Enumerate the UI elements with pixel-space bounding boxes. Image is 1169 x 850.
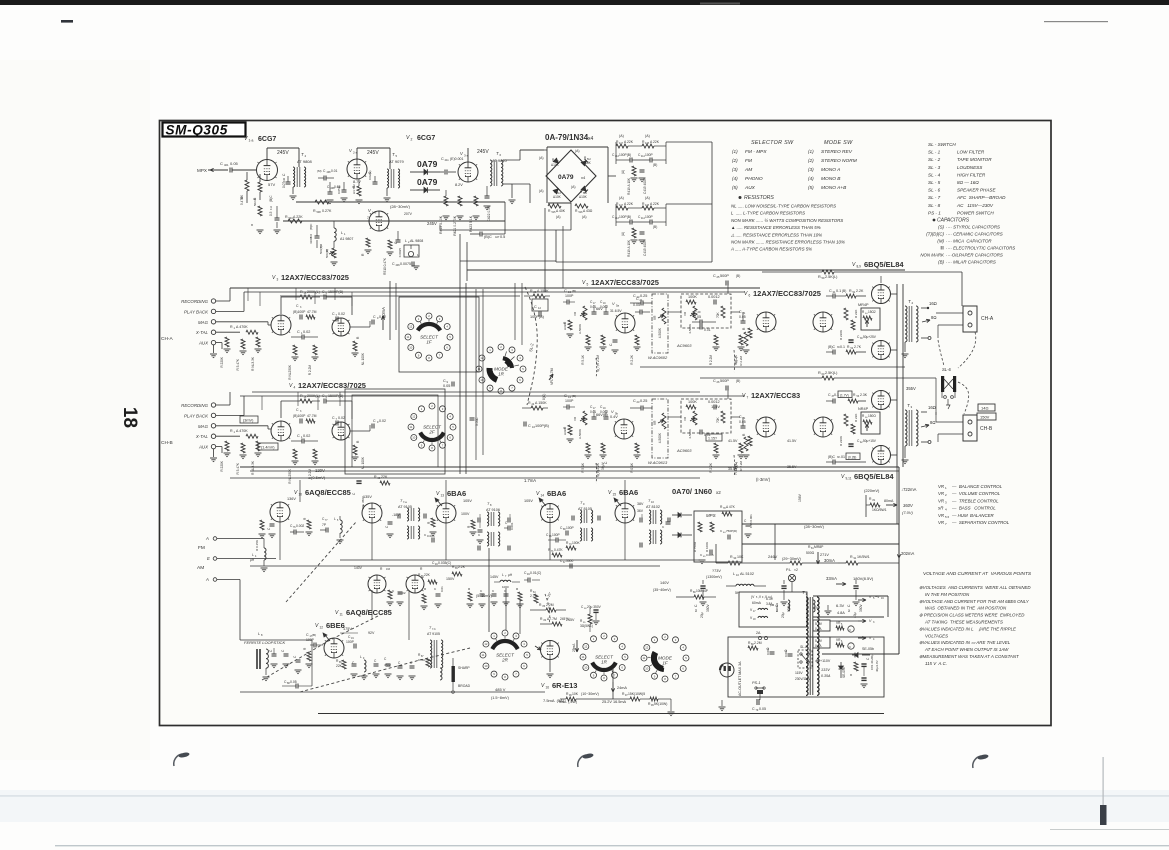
output tube V11 bbox=[872, 446, 891, 465]
svg-text:(B): (B) bbox=[842, 289, 846, 293]
svg-text:NON MARK ...... ½ WATTS COMPOS: NON MARK ...... ½ WATTS COMPOSITION RESI… bbox=[731, 218, 843, 223]
svg-text:⊛VALUES INDICATED IN L ⌋ARE: ⊛VALUES INDICATED IN L ⌋ARE THE RIPPLE bbox=[919, 626, 1016, 631]
svg-text:R 0.1K: R 0.1K bbox=[630, 462, 634, 473]
svg-text:(B): (B) bbox=[653, 163, 657, 167]
tube V15 6BA6 IF3 bbox=[615, 503, 635, 523]
dashed network box bass a bbox=[681, 294, 731, 328]
svg-text:R 22K: R 22K bbox=[854, 414, 858, 422]
svg-text:100P: 100P bbox=[552, 533, 561, 537]
svg-text:⊕ PRECISION CLASS METERS WERE: ⊕ PRECISION CLASS METERS WERE EMPLOYED bbox=[919, 613, 1025, 618]
svg-text:30mA: 30mA bbox=[824, 558, 835, 563]
svg-text:R 2.2K: R 2.2K bbox=[709, 462, 713, 473]
svg-text:MPS: MPS bbox=[706, 513, 716, 518]
svg-text:R 2.2M: R 2.2M bbox=[308, 365, 312, 376]
svg-text:R421 0.270K: R421 0.270K bbox=[453, 215, 457, 236]
svg-text:11: 11 bbox=[340, 613, 344, 617]
rotary switch SELECT 1R bbox=[591, 636, 597, 642]
svg-text:HIGH FILTER: HIGH FILTER bbox=[957, 172, 986, 177]
svg-text:100P: 100P bbox=[645, 153, 654, 157]
scan thin line top-right bbox=[1044, 21, 1108, 22]
svg-text:A1 9807: A1 9807 bbox=[340, 237, 353, 241]
svg-text:(28~30mV): (28~30mV) bbox=[804, 524, 825, 529]
svg-text:R 5.47K: R 5.47K bbox=[236, 462, 240, 474]
label 6R-E13 arrow bbox=[535, 646, 541, 650]
svg-text:(A): (A) bbox=[619, 134, 624, 138]
svg-text:4: 4 bbox=[294, 386, 296, 390]
tuner mid row tube V11-a bbox=[368, 575, 386, 593]
svg-text:△ ..... RESISTANCE ERRORLESS T: △ ..... RESISTANCE ERRORLESS THAN 10% bbox=[730, 232, 822, 237]
wire mode drop lines bbox=[459, 281, 461, 474]
svg-text:(28~30mV): (28~30mV) bbox=[390, 204, 411, 209]
wire plate loop CH-A bbox=[280, 297, 282, 314]
resistor R9 NL250K CH-B bbox=[293, 449, 297, 459]
tuner mid row tube V11-b bbox=[406, 575, 424, 593]
svg-text:R 5.1K: R 5.1K bbox=[581, 462, 585, 473]
svg-text:R510 0.47K: R510 0.47K bbox=[383, 257, 387, 275]
svg-text:412: 412 bbox=[270, 205, 273, 210]
svg-text:NR4P: NR4P bbox=[858, 407, 869, 411]
svg-text:0.05: 0.05 bbox=[475, 419, 479, 426]
svg-text:AT 8102: AT 8102 bbox=[646, 505, 660, 509]
svg-text:(A): (A) bbox=[539, 156, 544, 160]
svg-text:6CG7: 6CG7 bbox=[417, 135, 435, 142]
svg-text:SL - 4: SL - 4 bbox=[928, 172, 941, 177]
svg-text:7: 7 bbox=[747, 396, 749, 400]
svg-text:0.05: 0.05 bbox=[337, 188, 341, 194]
punch hole mark middle bbox=[578, 755, 586, 767]
svg-text:750P(D): 750P(D) bbox=[726, 529, 737, 533]
svg-text:(1.4mV): (1.4mV) bbox=[261, 446, 275, 450]
svg-text:(4): (4) bbox=[732, 176, 738, 181]
svg-text:0.07: 0.07 bbox=[282, 182, 286, 188]
svg-text:(A): (A) bbox=[621, 170, 625, 174]
svg-text:15Ω2: 15Ω2 bbox=[868, 310, 876, 314]
svg-text:6BQ5/EL84: 6BQ5/EL84 bbox=[864, 260, 904, 269]
svg-text:0.05: 0.05 bbox=[694, 315, 701, 319]
svg-text:8Ω: 8Ω bbox=[931, 315, 936, 320]
svg-text:PLAY BACK: PLAY BACK bbox=[184, 309, 209, 314]
svg-text:NON MARK ....... RESISTANCE ER: NON MARK ....... RESISTANCE ERRORLESS TH… bbox=[731, 240, 845, 245]
svg-text:100P(B): 100P(B) bbox=[619, 153, 631, 157]
svg-text:7: 7 bbox=[367, 216, 369, 220]
svg-text:C: C bbox=[534, 305, 537, 309]
svg-text:0.05: 0.05 bbox=[230, 161, 239, 166]
svg-text:0.01: 0.01 bbox=[440, 586, 444, 592]
svg-text:12AX7/ECC83/7025: 12AX7/ECC83/7025 bbox=[753, 289, 821, 298]
svg-text:(1.7V): (1.7V) bbox=[840, 394, 849, 398]
svg-text:(1300mV): (1300mV) bbox=[706, 575, 722, 579]
ratio detector caps bbox=[666, 521, 671, 523]
svg-text:100V: 100V bbox=[461, 512, 470, 516]
junction wires CH-B bbox=[267, 426, 269, 429]
svg-text:271V: 271V bbox=[820, 553, 829, 557]
rotary switch SELECT 1F bbox=[416, 316, 422, 322]
svg-text:0.5: 0.5 bbox=[500, 235, 505, 239]
resistor R46 220K vertical bbox=[844, 414, 848, 426]
svg-text:MONO A+B: MONO A+B bbox=[821, 185, 847, 191]
svg-text:0.05: 0.05 bbox=[739, 420, 746, 424]
svg-text:13: 13 bbox=[441, 494, 445, 498]
svg-text:1.15?: 1.15? bbox=[708, 437, 717, 441]
svg-text:Δ10K: Δ10K bbox=[579, 195, 588, 199]
electrolytic C61 20u 350V bbox=[781, 585, 786, 587]
wire network frame bbox=[615, 142, 617, 164]
dashed SL-4 b bbox=[733, 455, 736, 477]
svg-text:(3): (3) bbox=[808, 167, 814, 172]
svg-text:IN THE FM POSITION: IN THE FM POSITION bbox=[925, 592, 970, 597]
svg-text:SL - 3: SL - 3 bbox=[928, 165, 941, 170]
svg-text:100P(B): 100P(B) bbox=[530, 315, 545, 319]
svg-text:?73V: ?73V bbox=[712, 569, 721, 573]
resistor R37 2.2M b bbox=[744, 437, 748, 451]
svg-text:A-500K: A-500K bbox=[578, 429, 582, 439]
svg-text:R 220K: R 220K bbox=[220, 356, 224, 368]
svg-text:C: C bbox=[373, 419, 376, 423]
svg-text:(B): (B) bbox=[938, 260, 944, 265]
svg-text:C: C bbox=[528, 424, 531, 428]
ground input CH-B bbox=[213, 449, 215, 457]
svg-text:8.7V: 8.7V bbox=[353, 180, 361, 184]
svg-text:⊛VOLTAGES AND CURRENTS WERE: ⊛VOLTAGES AND CURRENTS WERE ALL OBTAINED bbox=[919, 585, 1031, 590]
svg-text:150V: 150V bbox=[980, 415, 990, 420]
svg-text:R 0.15K: R 0.15K bbox=[255, 540, 259, 551]
svg-text:E: E bbox=[207, 556, 210, 561]
diode bridge arm 1 bbox=[553, 158, 560, 165]
svg-text:R 220K: R 220K bbox=[220, 460, 224, 472]
svg-text:11: 11 bbox=[643, 656, 646, 660]
svg-text:(I·3mV): (I·3mV) bbox=[756, 477, 771, 482]
svg-text:0.02(E): 0.02(E) bbox=[368, 170, 372, 180]
svg-text:MONO A: MONO A bbox=[821, 167, 840, 173]
svg-text:R 2.2K: R 2.2K bbox=[596, 462, 600, 473]
ground heater bbox=[827, 605, 829, 610]
svg-text:C: C bbox=[373, 315, 376, 319]
svg-text:50μ+15V: 50μ+15V bbox=[863, 439, 877, 443]
svg-text:+110V: +110V bbox=[820, 659, 831, 663]
svg-text:1R: 1R bbox=[601, 660, 608, 665]
mid row parts bbox=[388, 590, 392, 599]
svg-text:140V: 140V bbox=[354, 566, 363, 570]
svg-text:···· STYROL CAPACITORS: ···· STYROL CAPACITORS bbox=[946, 225, 1000, 230]
heater arrow V5-V16 bbox=[858, 599, 866, 601]
svg-text:150V: 150V bbox=[446, 577, 455, 581]
svg-text:R 750Ω: R 750Ω bbox=[693, 541, 697, 552]
svg-text:— HUM BALANCER: — HUM BALANCER bbox=[951, 513, 995, 518]
svg-text:A 22K: A 22K bbox=[624, 202, 634, 206]
wire psu internals bbox=[766, 585, 775, 587]
svg-text:···· MICA CAPACITOR: ···· MICA CAPACITOR bbox=[946, 239, 992, 244]
svg-text:12: 12 bbox=[320, 626, 324, 630]
svg-text:(A): (A) bbox=[556, 215, 561, 219]
svg-text:6: 6 bbox=[749, 294, 751, 298]
svg-text:1K/5W1: 1K/5W1 bbox=[857, 555, 870, 559]
svg-text:POWER SWITCH: POWER SWITCH bbox=[957, 210, 994, 215]
svg-text:R 2.2K: R 2.2K bbox=[630, 354, 634, 365]
svg-text:C415 400P: C415 400P bbox=[643, 178, 647, 194]
svg-text:105V: 105V bbox=[463, 499, 472, 503]
svg-text:230V/115V: 230V/115V bbox=[795, 677, 811, 681]
wire inputs CH-A bbox=[216, 300, 230, 302]
resistor R9 NL250K CH-A bbox=[293, 345, 297, 355]
svg-text:47.7M: 47.7M bbox=[307, 414, 317, 418]
svg-text:1R: 1R bbox=[498, 372, 505, 377]
wire tuner buses bbox=[240, 691, 545, 693]
oscillator coil L5 bbox=[340, 520, 342, 533]
svg-text:2.2M: 2.2M bbox=[754, 641, 762, 645]
rotary switch MODE 1F bbox=[652, 637, 658, 643]
svg-text:⊛VALUES INDICATED IN ▭ ARE THE: ⊛VALUES INDICATED IN ▭ ARE THE LEVEL bbox=[919, 640, 1011, 645]
wire out CH-B bbox=[350, 430, 370, 432]
svg-text:RESISTORS: RESISTORS bbox=[744, 195, 774, 201]
svg-text:A ..... A-TYPE CARBON RESISTOR: A ..... A-TYPE CARBON RESISTORS 5% bbox=[730, 247, 812, 252]
wire network frame bbox=[615, 204, 617, 226]
svg-text:AL 9808: AL 9808 bbox=[410, 239, 423, 243]
svg-text:(5~10mV): (5~10mV) bbox=[476, 594, 492, 598]
svg-text:2R: 2R bbox=[501, 658, 509, 663]
svg-text:SL - 2: SL - 2 bbox=[928, 157, 941, 162]
wire preamp buses bbox=[230, 287, 760, 289]
svg-text:MR8P: MR8P bbox=[814, 545, 824, 549]
svg-text:R 220K: R 220K bbox=[839, 330, 843, 340]
svg-text:80mA: 80mA bbox=[884, 499, 894, 503]
svg-text:(A): (A) bbox=[582, 215, 587, 219]
svg-text:245V: 245V bbox=[477, 149, 489, 155]
svg-text:(29~30mV): (29~30mV) bbox=[782, 557, 802, 561]
svg-text:C415 400P: C415 400P bbox=[643, 240, 647, 256]
svg-text:500P: 500P bbox=[720, 274, 729, 278]
svg-text:(B)C: (B)C bbox=[309, 223, 313, 230]
svg-text:10: 10 bbox=[584, 666, 588, 670]
svg-text:14Ω: 14Ω bbox=[981, 406, 988, 411]
svg-text:245V: 245V bbox=[427, 221, 437, 226]
svg-text:105V: 105V bbox=[524, 499, 533, 503]
tube V5-b bbox=[614, 419, 634, 439]
wire bridge enclosure box bbox=[547, 146, 608, 148]
svg-text:2A: 2A bbox=[756, 631, 761, 635]
resistor R13 NL100K CH-A bbox=[353, 341, 357, 351]
svg-text:Δ7.7M: Δ7.7M bbox=[547, 617, 557, 621]
svg-text:14: 14 bbox=[541, 494, 545, 498]
tube V1-a bbox=[257, 160, 278, 181]
tube V4 first half bbox=[271, 421, 291, 441]
svg-text:— VOLUME CONTROL: — VOLUME CONTROL bbox=[951, 491, 1001, 496]
svg-text:1-a: 1-a bbox=[249, 139, 254, 143]
svg-text:0A79: 0A79 bbox=[558, 174, 574, 181]
svg-text:0.002: 0.002 bbox=[296, 524, 304, 528]
svg-text:136V: 136V bbox=[287, 497, 296, 501]
wire bus upper 28-30mV bbox=[296, 201, 505, 203]
svg-text:AC-OUTLET MAX 3A: AC-OUTLET MAX 3A bbox=[738, 661, 742, 696]
svg-text:(B)C: (B)C bbox=[828, 455, 836, 459]
svg-text:66V(B): 66V(B) bbox=[596, 413, 609, 417]
svg-text:2.2K: 2.2K bbox=[856, 289, 864, 293]
svg-text:AUX: AUX bbox=[198, 341, 209, 346]
svg-text:Δ10K: Δ10K bbox=[551, 163, 560, 167]
diode bridge 0A79 x4 bbox=[546, 150, 596, 202]
svg-text:···· MILAR CAPACITORS: ···· MILAR CAPACITORS bbox=[946, 260, 996, 265]
diode bridge arm 2 bbox=[581, 159, 588, 166]
resistor R43 grid bbox=[739, 335, 743, 345]
svg-text:24mA: 24mA bbox=[617, 686, 627, 690]
svg-text:(1): (1) bbox=[732, 149, 738, 154]
svg-text:FERRITE LOOPSTICK: FERRITE LOOPSTICK bbox=[244, 640, 285, 645]
svg-text:FM: FM bbox=[198, 545, 205, 551]
capacitor pairs flanking T9 bbox=[571, 516, 573, 521]
ratio detector diodes 0A70 bbox=[672, 514, 678, 516]
svg-text:AT EACH POINT WHEN OUTPUT IS 1: AT EACH POINT WHEN OUTPUT IS 1AW bbox=[924, 647, 1009, 652]
svg-text:0.01(C): 0.01(C) bbox=[530, 571, 541, 575]
svg-text:VOLTAGES: VOLTAGES bbox=[925, 633, 948, 638]
svg-text:NL 100K: NL 100K bbox=[361, 352, 365, 365]
wire antenna leads bbox=[217, 538, 264, 540]
svg-text:10: 10 bbox=[409, 346, 413, 350]
svg-text:⊛VOLTAGE AND CURRENT FOR THE A: ⊛VOLTAGE AND CURRENT FOR THE AM 6BE6 ONL… bbox=[919, 599, 1030, 604]
svg-text:R 2.2M: R 2.2M bbox=[596, 355, 600, 366]
resistor R11 2.2M CH-B bbox=[313, 449, 317, 459]
resistor R3 networks CH-B bbox=[225, 441, 229, 451]
svg-text:6BE6: 6BE6 bbox=[326, 621, 345, 630]
svg-text:C81 40+80μ: C81 40+80μ bbox=[870, 654, 874, 670]
resistor R13 NL100K CH-B bbox=[353, 445, 357, 455]
svg-text:25mA: 25mA bbox=[572, 643, 576, 652]
svg-text:202mA: 202mA bbox=[901, 551, 914, 556]
svg-text:485 V: 485 V bbox=[495, 687, 506, 692]
wire upper amp B+ rails bbox=[467, 269, 905, 271]
svg-text:0.05: 0.05 bbox=[759, 707, 766, 711]
svg-text:0.02: 0.02 bbox=[379, 419, 386, 423]
svg-text:AT 9105: AT 9105 bbox=[398, 505, 412, 509]
svg-text:AUX: AUX bbox=[198, 445, 209, 450]
tube V5-a bbox=[615, 313, 635, 333]
svg-text:16: 16 bbox=[546, 686, 550, 690]
svg-text:NL ..... LOW NOISES/L-TYPE CAR: NL ..... LOW NOISES/L-TYPE CARBON RESIST… bbox=[731, 204, 836, 209]
ground psu bbox=[721, 700, 723, 706]
svg-text:8(C): 8(C) bbox=[542, 394, 546, 400]
svg-text:(T)(D)(C): (T)(D)(C) bbox=[926, 232, 944, 237]
tube V16 6R-E13 magic eye bbox=[541, 641, 560, 660]
svg-text:X-TAL: X-TAL bbox=[195, 330, 209, 335]
svg-text:245V: 245V bbox=[367, 150, 379, 156]
svg-text:V: V bbox=[406, 135, 410, 141]
resistor R48 22K vertical bbox=[851, 424, 855, 434]
svg-text:sR: sR bbox=[938, 506, 944, 511]
svg-text:100P: 100P bbox=[565, 399, 574, 403]
svg-text:2: 2 bbox=[411, 138, 413, 142]
svg-text:50mA: 50mA bbox=[253, 198, 257, 206]
svg-text:(B): (B) bbox=[653, 225, 657, 229]
svg-text:SE-05b: SE-05b bbox=[862, 647, 874, 651]
svg-text:0.5: 0.5 bbox=[269, 211, 273, 216]
svg-text:(B)100P: (B)100P bbox=[293, 310, 306, 314]
svg-text:R423 5.1K: R423 5.1K bbox=[469, 215, 473, 232]
svg-text:8Ω — 16Ω: 8Ω — 16Ω bbox=[957, 180, 979, 185]
svg-text:x2: x2 bbox=[716, 490, 721, 495]
svg-text:SL - 7: SL - 7 bbox=[928, 195, 941, 200]
svg-text:4-500K: 4-500K bbox=[658, 432, 662, 443]
svg-text:Δ10K: Δ10K bbox=[583, 161, 592, 165]
svg-text:SL - 5: SL - 5 bbox=[928, 180, 941, 185]
secondary 5.5V winding VR6 bbox=[813, 637, 830, 648]
svg-text:22K: 22K bbox=[381, 475, 388, 479]
svg-text:150Ω: 150Ω bbox=[868, 414, 876, 418]
svg-text:L: L bbox=[405, 239, 407, 243]
svg-text:12: 12 bbox=[409, 325, 413, 329]
svg-text:41.5V: 41.5V bbox=[787, 439, 797, 443]
svg-text:12: 12 bbox=[412, 415, 416, 419]
svg-text:0.05: 0.05 bbox=[633, 303, 640, 307]
svg-text:246V: 246V bbox=[768, 554, 778, 559]
svg-text:10: 10 bbox=[484, 664, 488, 668]
svg-text:VR: VR bbox=[938, 520, 945, 525]
svg-text:SL - SWITCH: SL - SWITCH bbox=[928, 142, 956, 147]
tube V7-a phase splitter lower bbox=[756, 417, 776, 437]
svg-text:A: A bbox=[205, 577, 209, 582]
svg-text:12: 12 bbox=[645, 646, 649, 650]
svg-text:SL - 8: SL - 8 bbox=[928, 203, 941, 208]
svg-text:(3mV): (3mV) bbox=[243, 419, 254, 423]
svg-text:3.8A: 3.8A bbox=[766, 602, 773, 606]
svg-text:VR: VR bbox=[938, 491, 945, 496]
svg-text:0.25: 0.25 bbox=[640, 294, 647, 298]
svg-text:500Ω: 500Ω bbox=[806, 551, 815, 555]
svg-text:MODE SW: MODE SW bbox=[824, 140, 853, 146]
svg-text:CH-B: CH-B bbox=[980, 426, 993, 432]
svg-text:(A): (A) bbox=[571, 185, 576, 189]
tube V2-a bbox=[347, 159, 367, 179]
svg-text:0.02: 0.02 bbox=[303, 434, 310, 438]
wire lower network return bbox=[556, 261, 712, 263]
svg-text:8.2V: 8.2V bbox=[455, 183, 463, 187]
svg-text:Δ 150K: Δ 150K bbox=[535, 401, 547, 405]
tube V3 first half bbox=[271, 315, 291, 335]
svg-text:(B): (B) bbox=[736, 274, 740, 278]
svg-text:(A): (A) bbox=[575, 149, 580, 153]
svg-text:(5): (5) bbox=[808, 185, 814, 190]
svg-text:403: 403 bbox=[283, 177, 286, 182]
svg-text:CH-A: CH-A bbox=[981, 316, 994, 322]
svg-text:10M64P: 10M64P bbox=[696, 589, 708, 593]
resistor R76 100K bbox=[710, 522, 714, 532]
punch hole mark right bbox=[973, 756, 981, 768]
svg-text:5.470K: 5.470K bbox=[240, 194, 244, 205]
svg-text:10: 10 bbox=[412, 436, 416, 440]
boxed label 3mV bbox=[240, 416, 258, 423]
svg-text:11: 11 bbox=[482, 653, 485, 657]
dashed FM gang link bbox=[286, 522, 356, 602]
svg-text:6BA6: 6BA6 bbox=[447, 489, 466, 498]
svg-text:MAG: MAG bbox=[198, 424, 209, 429]
svg-text:2.3K: 2.3K bbox=[860, 393, 868, 397]
svg-text:15: 15 bbox=[613, 493, 617, 497]
svg-text:6BA6: 6BA6 bbox=[619, 488, 638, 497]
svg-text:STEREO REV: STEREO REV bbox=[821, 149, 853, 155]
svg-text:SPEAKER PHASE: SPEAKER PHASE bbox=[957, 188, 996, 193]
svg-text:R NL3.3K: R NL3.3K bbox=[251, 460, 255, 475]
svg-text:207V: 207V bbox=[404, 212, 413, 216]
svg-text:0.35A: 0.35A bbox=[821, 674, 831, 678]
scan top black bar bbox=[0, 0, 1169, 5]
svg-text:Δ 22K: Δ 22K bbox=[293, 215, 303, 219]
svg-text:10: 10 bbox=[645, 667, 649, 671]
svg-text:47.7M: 47.7M bbox=[307, 310, 317, 314]
svg-text:Δ 40K: Δ 40K bbox=[556, 209, 566, 213]
svg-text:SL-6: SL-6 bbox=[942, 367, 952, 372]
svg-text:163: 163 bbox=[386, 568, 391, 571]
svg-text:R415 5.10K: R415 5.10K bbox=[439, 215, 443, 234]
svg-text:(A): (A) bbox=[645, 134, 650, 138]
svg-text:115V: 115V bbox=[795, 671, 803, 675]
svg-text:2.5K(L): 2.5K(L) bbox=[825, 371, 838, 375]
